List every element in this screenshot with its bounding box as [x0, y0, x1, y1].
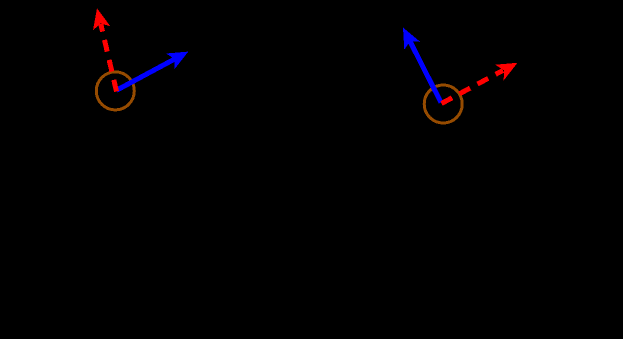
node circle left	[96, 72, 134, 110]
node circle right	[424, 85, 462, 123]
blue solid vector arrow, right node	[403, 28, 441, 103]
blue solid vector arrow, left node	[117, 52, 189, 91]
red dashed vector arrow, right node	[442, 63, 518, 104]
red dashed vector arrow, left node	[93, 8, 117, 91]
